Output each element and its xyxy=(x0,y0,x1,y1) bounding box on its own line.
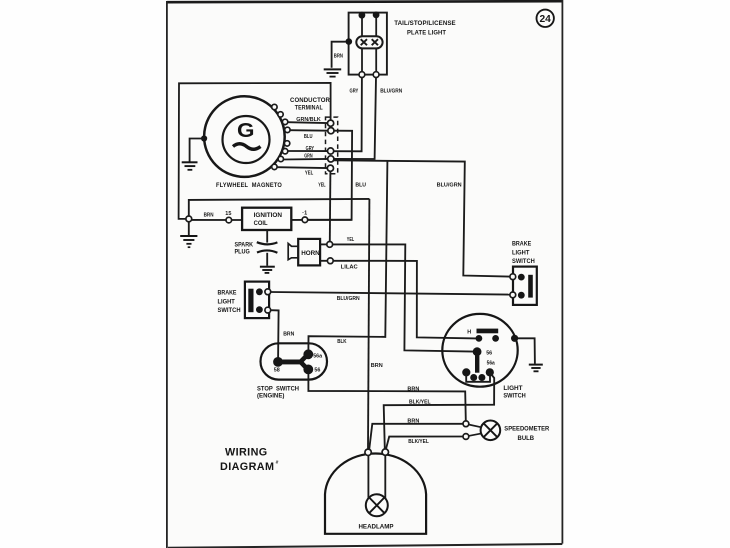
wire BRN ignition primary bus xyxy=(189,199,370,219)
svg-text:HEADLAMP: HEADLAMP xyxy=(358,523,393,530)
svg-text:BLU: BLU xyxy=(355,182,366,188)
wire YEL horn to light switch 56 xyxy=(333,237,474,352)
brake light switch left terminal bottom xyxy=(265,307,271,313)
svg-text:(ENGINE): (ENGINE) xyxy=(257,392,284,399)
magneto rim terminal 6 xyxy=(282,149,287,154)
svg-text:SWITCH: SWITCH xyxy=(218,307,241,314)
svg-text:PLATE LIGHT: PLATE LIGHT xyxy=(407,30,447,37)
wire BLU magneto T4 to terminal to ignition coil xyxy=(290,130,366,220)
magneto rim terminal 2 xyxy=(278,112,283,117)
terminal 15 xyxy=(225,211,231,223)
wire YEL magneto terminal to horn xyxy=(329,171,332,241)
tail/stop/license plate light xyxy=(349,13,457,75)
svg-text:BLK/YEL: BLK/YEL xyxy=(409,400,431,406)
ground ignition BRN xyxy=(180,222,197,247)
svg-text:LIGHT: LIGHT xyxy=(512,250,530,257)
svg-text:YEL: YEL xyxy=(318,183,326,189)
svg-text:58: 58 xyxy=(274,368,280,374)
svg-text:BULB: BULB xyxy=(518,435,535,442)
brake light switch right xyxy=(512,241,537,305)
svg-text:BRN: BRN xyxy=(407,418,419,424)
svg-text:56a: 56a xyxy=(487,361,496,367)
magneto rim terminal 8 xyxy=(272,164,277,169)
svg-text:BRAKE: BRAKE xyxy=(218,290,237,297)
svg-text:BLU/GRN: BLU/GRN xyxy=(380,88,402,94)
wire LILAC horn to light switch H xyxy=(333,261,476,339)
wire magneto frame to ground xyxy=(190,139,205,162)
magneto enclosure box xyxy=(179,83,331,219)
light switch xyxy=(442,314,526,400)
svg-text:SPEEDOMETER: SPEEDOMETER xyxy=(504,426,549,433)
brake light switch left xyxy=(218,282,270,319)
wire BLK/YEL light switch 56a to headlamp xyxy=(384,372,495,448)
brake light switch left terminal top xyxy=(265,289,271,295)
svg-text:LILAC: LILAC xyxy=(341,264,358,270)
junction dot tail light feed BLU/GRN xyxy=(373,12,380,19)
wire YEL magneto T8 to terminal xyxy=(277,166,328,169)
wire BLK stop switch 56a to brake circuit xyxy=(308,162,387,351)
svg-text:GRY: GRY xyxy=(350,88,359,94)
svg-text:TAIL/STOP/LICENSE: TAIL/STOP/LICENSE xyxy=(394,20,456,27)
svg-text:BRN: BRN xyxy=(334,54,343,60)
headlamp xyxy=(325,453,426,533)
conductor terminal circle YEL xyxy=(327,165,333,171)
svg-text:BLU/GRN: BLU/GRN xyxy=(437,183,462,189)
conductor terminal circle GRN/BLK xyxy=(328,120,334,126)
svg-text:LIGHT: LIGHT xyxy=(503,385,522,392)
horn xyxy=(288,239,327,266)
svg-text:56a: 56a xyxy=(313,354,323,360)
svg-text:GRY: GRY xyxy=(306,146,315,152)
svg-text:IGNITION: IGNITION xyxy=(254,212,283,219)
terminal BRN ground circle xyxy=(186,216,192,222)
wire GRN/BLK magneto T3 to terminal xyxy=(288,117,328,123)
wire BRN speedometer bulb to headlamp xyxy=(369,418,463,449)
magneto rim terminal 7 xyxy=(278,156,283,161)
wire BLU/GRN between brake light switches xyxy=(271,292,510,302)
wire BRN tail light to ground xyxy=(332,42,346,68)
svg-text:HORN: HORN xyxy=(301,250,320,257)
speedometer bulb xyxy=(469,421,550,442)
wire GRN magneto T7 to terminal to tail light BLU/GRN xyxy=(283,78,402,160)
wire BRN brake switch to stop switch xyxy=(271,310,295,358)
svg-text:BRN: BRN xyxy=(283,332,294,338)
conductor terminal block xyxy=(290,97,338,174)
wire ignition coil to terminal 1 xyxy=(291,219,351,221)
svg-text:15: 15 xyxy=(225,211,231,217)
svg-text:FLYWHEEL MAGNETO: FLYWHEEL MAGNETO xyxy=(216,182,282,189)
terminal 1 xyxy=(302,211,308,223)
conductor terminal circle BLU xyxy=(328,128,334,134)
conductor terminal circle GRN xyxy=(328,156,334,162)
svg-text:BRN: BRN xyxy=(204,213,214,219)
svg-text:56: 56 xyxy=(314,368,320,374)
ground light switch xyxy=(529,365,543,372)
wire terminal 15 to ignition coil xyxy=(192,219,242,221)
svg-text:YEL: YEL xyxy=(347,237,355,243)
svg-text:PLUG: PLUG xyxy=(235,249,250,256)
horn terminal YEL xyxy=(327,242,333,248)
svg-text:SWITCH: SWITCH xyxy=(512,258,535,265)
title WIRING DIAGRAM xyxy=(220,446,278,472)
wire BLU/GRN terminal GRN to right brake switch xyxy=(334,160,510,276)
wire light switch H row to ground xyxy=(518,338,535,364)
svg-text:BLK/YEL: BLK/YEL xyxy=(408,439,429,445)
wire BRN stop switch 56 to speedometer bulb xyxy=(308,374,465,421)
headlamp terminal BRN xyxy=(365,449,371,455)
horn terminal LILAC xyxy=(327,258,333,264)
svg-text:BRAKE: BRAKE xyxy=(512,241,531,248)
flywheel magneto xyxy=(204,96,285,189)
svg-text:BRN: BRN xyxy=(371,363,383,369)
svg-text:BLU: BLU xyxy=(304,134,313,140)
conductor terminal circle GRY xyxy=(328,148,334,154)
svg-text:GRN: GRN xyxy=(304,154,312,160)
brake light switch right terminal bottom xyxy=(510,292,516,298)
junction dot tail light feed GRY xyxy=(359,12,366,19)
ground tail light xyxy=(324,69,342,76)
svg-text:GRN/BLK: GRN/BLK xyxy=(296,117,321,123)
svg-text:COIL: COIL xyxy=(254,220,268,227)
spark plug xyxy=(235,230,278,266)
svg-text:YEL: YEL xyxy=(305,170,314,176)
svg-text:SPARK: SPARK xyxy=(235,241,254,248)
svg-text:BLK: BLK xyxy=(337,339,346,345)
magneto rim terminal 4 xyxy=(285,127,290,132)
wire BRN main to headlamp xyxy=(368,199,383,449)
svg-text:WIRING: WIRING xyxy=(225,446,268,458)
svg-text:56: 56 xyxy=(486,350,492,356)
headlamp terminal BLK/YEL xyxy=(382,449,388,455)
wire GRY magneto T6 to terminal to tail light xyxy=(288,78,362,152)
speedometer bulb terminal BLK/YEL xyxy=(463,434,469,440)
svg-text:BLU/GRN: BLU/GRN xyxy=(337,296,360,302)
svg-text:H: H xyxy=(467,329,471,335)
ground magneto frame xyxy=(182,162,198,170)
stop switch (engine) xyxy=(257,343,327,399)
speedometer bulb terminal BRN xyxy=(463,421,469,427)
svg-text:DIAGRAM: DIAGRAM xyxy=(220,461,274,473)
svg-text:TERMINAL: TERMINAL xyxy=(295,105,323,112)
page number 24 xyxy=(537,10,554,27)
magneto frame junction dot xyxy=(201,135,207,141)
magneto rim terminal 1 xyxy=(272,104,277,109)
svg-text:STOP SWITCH: STOP SWITCH xyxy=(257,385,299,392)
svg-text:LIGHT: LIGHT xyxy=(218,299,236,306)
svg-text:CONDUCTOR: CONDUCTOR xyxy=(290,97,330,104)
svg-text:BRN: BRN xyxy=(407,387,419,393)
brake light switch right terminal top xyxy=(510,274,516,280)
ground spark plug xyxy=(260,267,275,273)
wire BLK/YEL speedometer bulb to headlamp xyxy=(386,437,463,450)
magneto rim terminal 5 xyxy=(284,141,289,146)
terminal tail light BLU/GRN xyxy=(373,72,379,78)
svg-text:·1: ·1 xyxy=(302,211,307,217)
junction dot tail light BRN xyxy=(346,38,353,45)
terminal tail light GRY xyxy=(359,72,365,78)
svg-text:G: G xyxy=(237,119,255,142)
magneto rim terminal 3 xyxy=(282,119,287,124)
ignition coil xyxy=(242,208,291,230)
svg-text:24: 24 xyxy=(540,14,552,25)
svg-text:SWITCH: SWITCH xyxy=(503,393,526,400)
